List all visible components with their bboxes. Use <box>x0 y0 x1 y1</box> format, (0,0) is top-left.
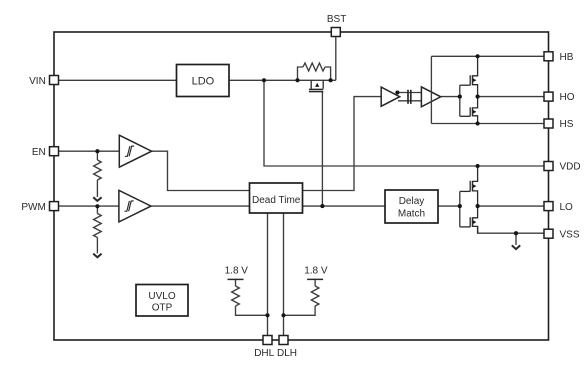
svg-text:LO: LO <box>560 202 574 213</box>
svg-text:VDD: VDD <box>560 162 581 173</box>
svg-text:1.8 V: 1.8 V <box>225 266 249 277</box>
svg-text:DHL: DHL <box>254 348 274 359</box>
svg-text:VIN: VIN <box>29 76 46 87</box>
svg-text:DLH: DLH <box>277 348 297 359</box>
svg-text:Dead Time: Dead Time <box>252 195 301 206</box>
svg-text:BST: BST <box>327 14 346 25</box>
svg-text:LDO: LDO <box>192 76 215 88</box>
svg-text:Delay: Delay <box>399 196 425 207</box>
svg-text:UVLO: UVLO <box>148 291 175 302</box>
svg-text:Match: Match <box>398 208 425 219</box>
svg-text:HB: HB <box>560 52 574 63</box>
svg-text:EN: EN <box>32 147 46 158</box>
svg-text:1.8 V: 1.8 V <box>304 266 328 277</box>
svg-text:VSS: VSS <box>560 230 580 241</box>
svg-text:HO: HO <box>560 92 575 103</box>
svg-text:PWM: PWM <box>21 202 45 213</box>
svg-text:OTP: OTP <box>152 302 173 313</box>
svg-text:HS: HS <box>560 119 574 130</box>
